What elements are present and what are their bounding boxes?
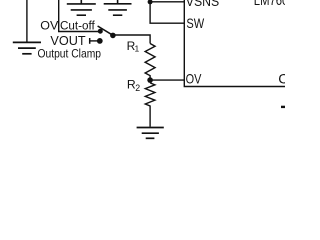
wire (VOUT to contact C): [90, 40, 100, 42]
label R2: [127, 77, 140, 92]
svg-text:CB: CB: [278, 71, 285, 87]
ground (left): [13, 42, 41, 53]
ground (top middle-right): [104, 0, 132, 15]
terminal tick (VOUT): [89, 38, 91, 44]
ground (bottom-right, clipped at image edge): [281, 106, 290, 108]
resistor R1: [145, 44, 155, 81]
wire (to SW pin): [150, 2, 184, 23]
switch contact B (common): [110, 33, 116, 39]
svg-text:SW: SW: [186, 15, 204, 31]
svg-text:LM76002: LM76002: [254, 0, 285, 8]
wire (left vertical to ground): [26, 0, 28, 42]
svg-text:2: 2: [135, 83, 140, 93]
svg-text:1: 1: [135, 44, 140, 54]
switch contact C (output clamp): [97, 38, 103, 44]
svg-text:OV: OV: [186, 71, 202, 87]
resistor R2: [145, 83, 155, 127]
svg-text:VSNS: VSNS: [186, 0, 219, 9]
svg-text:Output Clamp: Output Clamp: [38, 47, 102, 61]
ground (bottom, below R2): [137, 128, 164, 139]
junction dot (R1/R2/OV node): [147, 77, 153, 83]
svg-text:Cut-off: Cut-off: [60, 18, 95, 32]
wire (contact B to R1 top): [113, 35, 150, 44]
label R1: [127, 39, 140, 54]
wire (to VSNS pin): [150, 1, 184, 3]
switch blade (OV cut-off switch, open): [98, 26, 113, 35]
wire (Cut-off underline to contact A): [58, 31, 98, 33]
svg-text:OV: OV: [40, 18, 59, 32]
junction dot (VSNS/SW node): [148, 0, 153, 4]
switch contact A: [98, 29, 103, 34]
wire (to OV pin): [150, 79, 184, 81]
IC box (LM7xxxx outline): [184, 0, 285, 87]
wire (OV vertical): [58, 0, 60, 32]
ground (top middle-left): [67, 0, 96, 15]
